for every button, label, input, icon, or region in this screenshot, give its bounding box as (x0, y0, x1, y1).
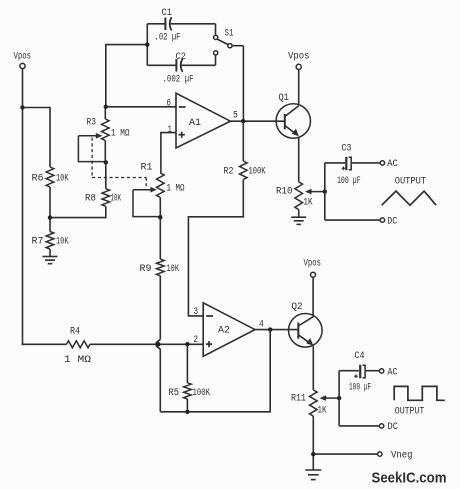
potentiometer R10 1K (276, 182, 325, 217)
wire A1 output to Q1 base (230, 120, 285, 122)
ground (below R7) (43, 257, 58, 264)
wire left rail down to R4 line (22, 108, 24, 346)
emitter arrow Q2 (306, 338, 313, 346)
svg-text:C3: C3 (342, 143, 352, 154)
resistor R6 10K (32, 167, 69, 187)
transistor Q1 (276, 93, 310, 138)
ground (below R10) (291, 217, 306, 224)
node R5 top junction (185, 342, 189, 346)
triangle waveform icon (382, 176, 436, 205)
potentiometer R11 1K (291, 390, 339, 417)
output terminal DC (triangle) (380, 217, 397, 228)
node rail junction (20, 105, 24, 109)
resistor R2 100K (224, 121, 266, 217)
svg-text:Vpos: Vpos (14, 52, 32, 63)
svg-text:R6: R6 (32, 173, 44, 184)
svg-text:Vpos: Vpos (304, 258, 322, 269)
wire junction to Vneg terminal (313, 453, 377, 455)
wire R2 bottom to A2 inverting input (188, 217, 244, 316)
switch S1 (214, 29, 244, 55)
transistor Q2 (289, 302, 323, 347)
svg-text:10K: 10K (56, 173, 69, 184)
capacitor C4 100 uF (polarized) (349, 351, 379, 393)
svg-text:Q1: Q1 (279, 93, 290, 104)
output terminal DC (square) (379, 422, 398, 433)
svg-text:DC: DC (388, 422, 399, 433)
node cap-bank junction (145, 42, 149, 46)
svg-text:R7: R7 (32, 236, 44, 247)
node R10 wiper junction (323, 189, 327, 193)
square waveform icon (394, 386, 445, 417)
ground (output common) (305, 470, 321, 480)
wire Q2 emitter down to R11 (312, 346, 314, 390)
wire wiper tap vertical AC/DC (324, 163, 326, 220)
svg-text:10K: 10K (56, 236, 69, 247)
wire junction to R8 bottom (50, 206, 106, 218)
wire A1 pin 1 to R1 top (161, 133, 176, 173)
wire R6 bottom to R7 top (49, 187, 51, 232)
wire Vpos down to rail junction (22, 69, 24, 108)
wire R9 top leg (159, 217, 161, 259)
node A2 output junction (268, 327, 272, 331)
svg-text:Vneg: Vneg (391, 451, 413, 462)
output terminal AC (triangle) (380, 159, 398, 170)
svg-text:R1: R1 (141, 162, 153, 173)
node hop junction blob (156, 342, 161, 347)
node A1 inverting input junction (104, 105, 108, 109)
op-amp A1 (167, 93, 238, 148)
potentiometer R3 1 Mohm (78, 107, 129, 163)
svg-text:R8: R8 (85, 193, 96, 204)
svg-text:100 µF: 100 µF (349, 382, 371, 393)
wire tap to DC terminal (square) (339, 425, 379, 427)
node Vneg junction (311, 452, 315, 456)
svg-text:C4: C4 (355, 351, 365, 362)
svg-text:A1: A1 (189, 118, 201, 129)
emitter arrow Q1 (292, 129, 299, 137)
svg-text:4: 4 (259, 319, 264, 330)
wire tap to C3 (325, 162, 345, 164)
wire junction to A1 pin 6 (106, 106, 176, 108)
capacitor C3 100 uF (polarized) (337, 143, 380, 187)
svg-text:100K: 100K (249, 167, 266, 178)
resistor R4 1 Mohm (64, 326, 91, 365)
power terminal Vpos (Q1 collector) (288, 52, 310, 105)
svg-text:6: 6 (167, 98, 172, 109)
power terminal Vpos (Q2 collector) (304, 258, 322, 315)
svg-text:DC: DC (387, 217, 397, 228)
power terminal Vpos (left supply) (14, 52, 32, 69)
svg-text:R10: R10 (276, 187, 293, 198)
resistor R5 100K (169, 344, 211, 412)
node R11 wiper junction (337, 396, 341, 400)
svg-text:R11: R11 (291, 393, 306, 404)
svg-text:10K: 10K (167, 264, 180, 275)
wire cap-bank left drop (106, 24, 148, 107)
svg-text:OUTPUT: OUTPUT (395, 176, 427, 187)
svg-text:Q2: Q2 (292, 302, 303, 313)
svg-text:1 MΩ: 1 MΩ (64, 355, 91, 366)
svg-text:A2: A2 (218, 325, 230, 336)
resistor R7 10K (32, 232, 69, 250)
watermark SeekIC.com (372, 470, 447, 487)
svg-text:C2: C2 (176, 52, 187, 63)
wire R11 bottom to ground rail (312, 416, 314, 470)
potentiometer R1 1 Mohm (133, 162, 185, 217)
node R1 bottom junction (158, 215, 162, 219)
power terminal Vneg (378, 451, 413, 462)
wire C1 to S1 top contact (215, 24, 217, 35)
wire R4 line to A2 noninverting input (90, 343, 203, 345)
svg-text:R3: R3 (87, 117, 97, 128)
output terminal AC (square) (379, 367, 397, 378)
svg-text:.02 µF: .02 µF (155, 32, 181, 43)
svg-text:AC: AC (387, 159, 398, 170)
svg-text:1 MΩ: 1 MΩ (111, 128, 130, 139)
wire R7 to ground (49, 249, 51, 257)
wire R4 line left segment (22, 343, 67, 345)
capacitor C2 .002 uF (147, 52, 215, 86)
svg-text:R4: R4 (70, 326, 80, 337)
svg-text:R5: R5 (169, 388, 180, 399)
svg-text:1K: 1K (318, 405, 327, 416)
svg-text:100 µF: 100 µF (337, 176, 361, 187)
wire A2 output to Q2 base (255, 329, 298, 331)
op-amp A2 (194, 303, 264, 357)
svg-text:.002 µF: .002 µF (163, 74, 194, 85)
wire Q1 emitter down to R10 (298, 137, 300, 182)
svg-text:R2: R2 (224, 167, 234, 178)
resistor R8 10K (85, 162, 121, 206)
wire tap to C4 (339, 370, 359, 372)
wire tap to DC terminal (325, 219, 380, 221)
svg-text:5: 5 (233, 110, 238, 121)
wire wiper tap vertical AC/DC (square) (338, 371, 340, 426)
svg-text:10K: 10K (111, 193, 122, 204)
wire S1 pole down to A1 output (242, 46, 244, 122)
wire junction to R6 top (23, 108, 51, 168)
wire R9 down with hop over pin-2 line (156, 276, 160, 412)
svg-text:R9: R9 (140, 264, 152, 275)
node R5 bottom junction (185, 410, 189, 414)
svg-text:3: 3 (194, 307, 199, 318)
svg-text:2: 2 (194, 335, 199, 346)
capacitor C1 .02 uF (147, 8, 215, 44)
svg-text:1K: 1K (304, 197, 313, 208)
ganged-pot coupling (dashed) (92, 138, 146, 187)
node A1 output junction (241, 119, 245, 123)
node R3 bottom junction (104, 160, 108, 164)
svg-text:1 MΩ: 1 MΩ (167, 183, 185, 194)
svg-text:Vpos: Vpos (288, 52, 310, 63)
wire A2 output feedback down-left (160, 330, 270, 412)
svg-text:1: 1 (168, 125, 173, 136)
wire C2 to S1 lower contact (215, 56, 217, 66)
svg-text:AC: AC (388, 367, 398, 378)
node R6/R7/R8 junction (48, 215, 52, 219)
svg-text:100K: 100K (193, 388, 211, 399)
svg-text:SeekIC.com: SeekIC.com (372, 470, 447, 487)
resistor R9 10K (140, 259, 180, 276)
svg-text:OUTPUT: OUTPUT (395, 407, 425, 418)
svg-text:S1: S1 (225, 29, 234, 40)
svg-text:C1: C1 (162, 8, 173, 19)
